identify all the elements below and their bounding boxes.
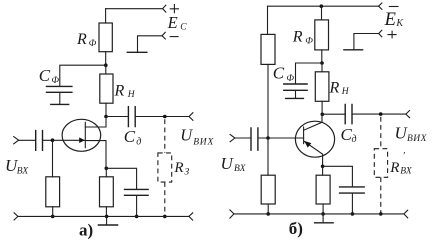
svg-text:Ф: Ф [89, 39, 97, 49]
wire bottom rail b [234, 213, 404, 215]
node top rail RF (b) [320, 4, 324, 8]
svg-text:б): б) [289, 219, 303, 238]
capacitor Cd (a) [128, 106, 135, 127]
capacitor Cd (b) [345, 104, 352, 125]
node output b [379, 112, 383, 116]
transistor VT2 BJT [295, 121, 334, 157]
wire input to C1 [19, 139, 35, 141]
label + (Ec plus) [170, 5, 178, 13]
resistor Rvx' dashed [380, 117, 382, 149]
capacitor C1 input (b) [251, 127, 258, 151]
node rail Rvx' [379, 212, 383, 216]
wire to CF (b) [296, 63, 323, 83]
svg-text:C: C [124, 127, 136, 146]
collector wire [304, 114, 322, 130]
terminal +Ec chevron [163, 5, 166, 12]
label + (Ek plus) [388, 31, 396, 38]
resistor emitter (b) [322, 166, 324, 175]
wire collector node to Cd (b) [322, 113, 345, 115]
terminal -Ek chevron [379, 3, 382, 9]
terminal output a chevron [189, 113, 193, 121]
svg-text:R: R [173, 160, 183, 176]
wire top rail a [106, 8, 163, 10]
svg-text:д: д [136, 136, 141, 147]
resistor gate bias (a) [52, 140, 54, 177]
svg-text:R: R [114, 83, 125, 100]
node rail RZ [163, 215, 167, 219]
terminal rail b right chevron [404, 210, 408, 218]
svg-text:ВХ: ВХ [400, 167, 413, 177]
svg-text:R: R [292, 29, 303, 46]
ground rail b [322, 214, 324, 223]
svg-text:C: C [180, 22, 187, 32]
svg-text:E: E [167, 13, 178, 32]
node rail bypass cap (b) [351, 212, 355, 216]
resistor R1 bias upper (b) [267, 6, 269, 34]
capacitor source bypass (a) [106, 168, 136, 188]
svg-text:ВИХ: ВИХ [193, 137, 214, 147]
svg-text:C: C [39, 66, 51, 85]
svg-text:U: U [180, 126, 193, 145]
node RF/RN/CF junction (b) [320, 61, 324, 65]
node gate junction [51, 138, 55, 142]
svg-text:U: U [221, 154, 235, 173]
node rail bypass cap [135, 215, 139, 219]
node output a [163, 115, 167, 119]
node base junction [266, 136, 270, 140]
ground Ek [343, 49, 363, 51]
terminal rail a right chevron [189, 213, 193, 220]
svg-text:д: д [352, 134, 357, 145]
wire C1 to base [259, 137, 304, 139]
node rail gate resistor [51, 215, 55, 219]
svg-text:ВИХ: ВИХ [407, 134, 428, 144]
resistor RN (b) [315, 72, 329, 102]
capacitor emitter bypass (b) [323, 166, 353, 186]
wire bottom rail a [18, 215, 189, 217]
ground CF (a) [50, 103, 69, 105]
svg-text:Ф: Ф [51, 76, 59, 86]
terminal output b chevron [406, 111, 410, 118]
terminal input a chevron [14, 137, 19, 144]
svg-text:З: З [185, 167, 190, 177]
node drain/Cd junction [104, 115, 108, 119]
resistor RZ dashed load [164, 119, 166, 153]
node emitter junction [321, 165, 325, 169]
transistor VT1 FET [62, 119, 101, 151]
node rail emitter resistor [321, 212, 325, 216]
resistor RF (b) [321, 6, 323, 20]
wire C1 to gate [43, 139, 85, 141]
terminal rail a left chevron [14, 213, 18, 220]
svg-text:а): а) [79, 220, 93, 239]
node rail source resistor [105, 215, 109, 219]
ground rail a [106, 216, 108, 225]
capacitor C1 input (a) [36, 130, 43, 151]
wire drain node to Cd [106, 116, 128, 118]
ground Ec [127, 51, 148, 53]
wire +Ek to ground [354, 34, 379, 50]
resistor source (a) [105, 168, 107, 177]
terminal +Ek chevron [379, 30, 382, 37]
node RF/RN/CF junction [104, 63, 108, 67]
capacitor CF (a) [46, 86, 73, 92]
label - (Ek minus) [389, 6, 398, 8]
terminal rail b left chevron [230, 210, 234, 218]
svg-text:ВХ: ВХ [234, 164, 247, 174]
capacitor CF (b) [283, 84, 308, 90]
wire input to C1 (b) [235, 137, 251, 139]
terminal input b chevron [230, 134, 235, 141]
svg-text:R: R [329, 80, 340, 97]
svg-text:Н: Н [127, 90, 136, 100]
resistor RN (a) [100, 74, 113, 103]
svg-text:ВХ: ВХ [17, 167, 30, 177]
wire -Ec to ground [138, 36, 163, 52]
wire top rail b [268, 5, 379, 7]
wire to CF [60, 65, 106, 86]
svg-text:R: R [389, 160, 399, 176]
resistor RF (a) [105, 9, 107, 23]
wire Cd to output (b) [353, 113, 406, 115]
svg-text:Н: Н [341, 87, 350, 97]
svg-text:E: E [384, 10, 396, 30]
svg-text:Ф: Ф [286, 74, 294, 84]
ground CF (b) [285, 97, 304, 99]
svg-text:Ф: Ф [305, 36, 313, 46]
node collector/Cd junction (b) [321, 113, 325, 117]
svg-text:C: C [273, 64, 285, 83]
resistor R2 bias lower (b) [267, 138, 269, 175]
wire Cd to output [136, 116, 189, 118]
node rail R2 [266, 212, 270, 216]
node source junction [105, 167, 109, 171]
terminal -Ec chevron [162, 32, 165, 39]
emitter wire with arrow [304, 141, 323, 166]
svg-text:R: R [76, 31, 87, 48]
label - (Ec minus) [170, 36, 178, 38]
